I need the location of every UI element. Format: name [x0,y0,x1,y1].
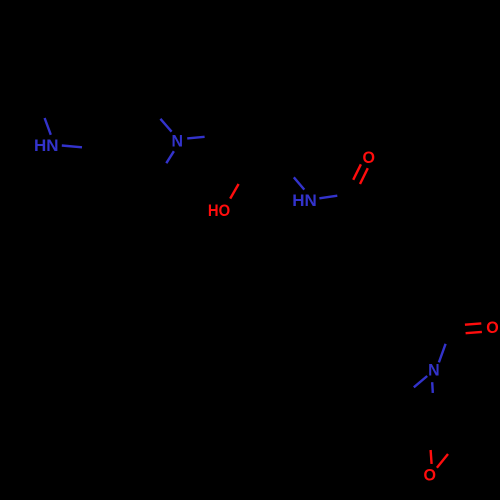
svg-text:HO: HO [208,201,230,220]
wire oxetane O bond up [431,450,432,464]
wire carbonyl C to spiro N bond [439,344,446,363]
svg-text:N: N [172,132,184,151]
wire amide N bond up-left [294,177,305,189]
svg-text:N: N [428,361,440,380]
wire azetidine N bond down [431,382,434,393]
wire N-H ring bond up [45,118,51,135]
svg-text:O: O [486,318,499,337]
wire azetidine N bond down-left [414,376,427,387]
svg-text:HN: HN [34,136,59,155]
wire N-H ring bond right [62,146,82,148]
wire N bond right [187,137,204,139]
svg-text:HN: HN [292,191,317,210]
wire N ring bond up-left [160,119,171,132]
wire N ring bond down-left [166,151,174,163]
wire O-C bond up-right [230,184,238,199]
svg-text:O: O [424,466,437,485]
wire amide N bond right [319,196,337,199]
wire C=O double bond line 1 [465,323,481,324]
svg-text:O: O [363,148,376,167]
wire C=O double bond line 1 [353,164,361,180]
wire oxetane O bond up-right [437,454,448,468]
wire C=O double bond line 2 [466,332,482,333]
wire C=O double bond line 2 [360,168,368,184]
